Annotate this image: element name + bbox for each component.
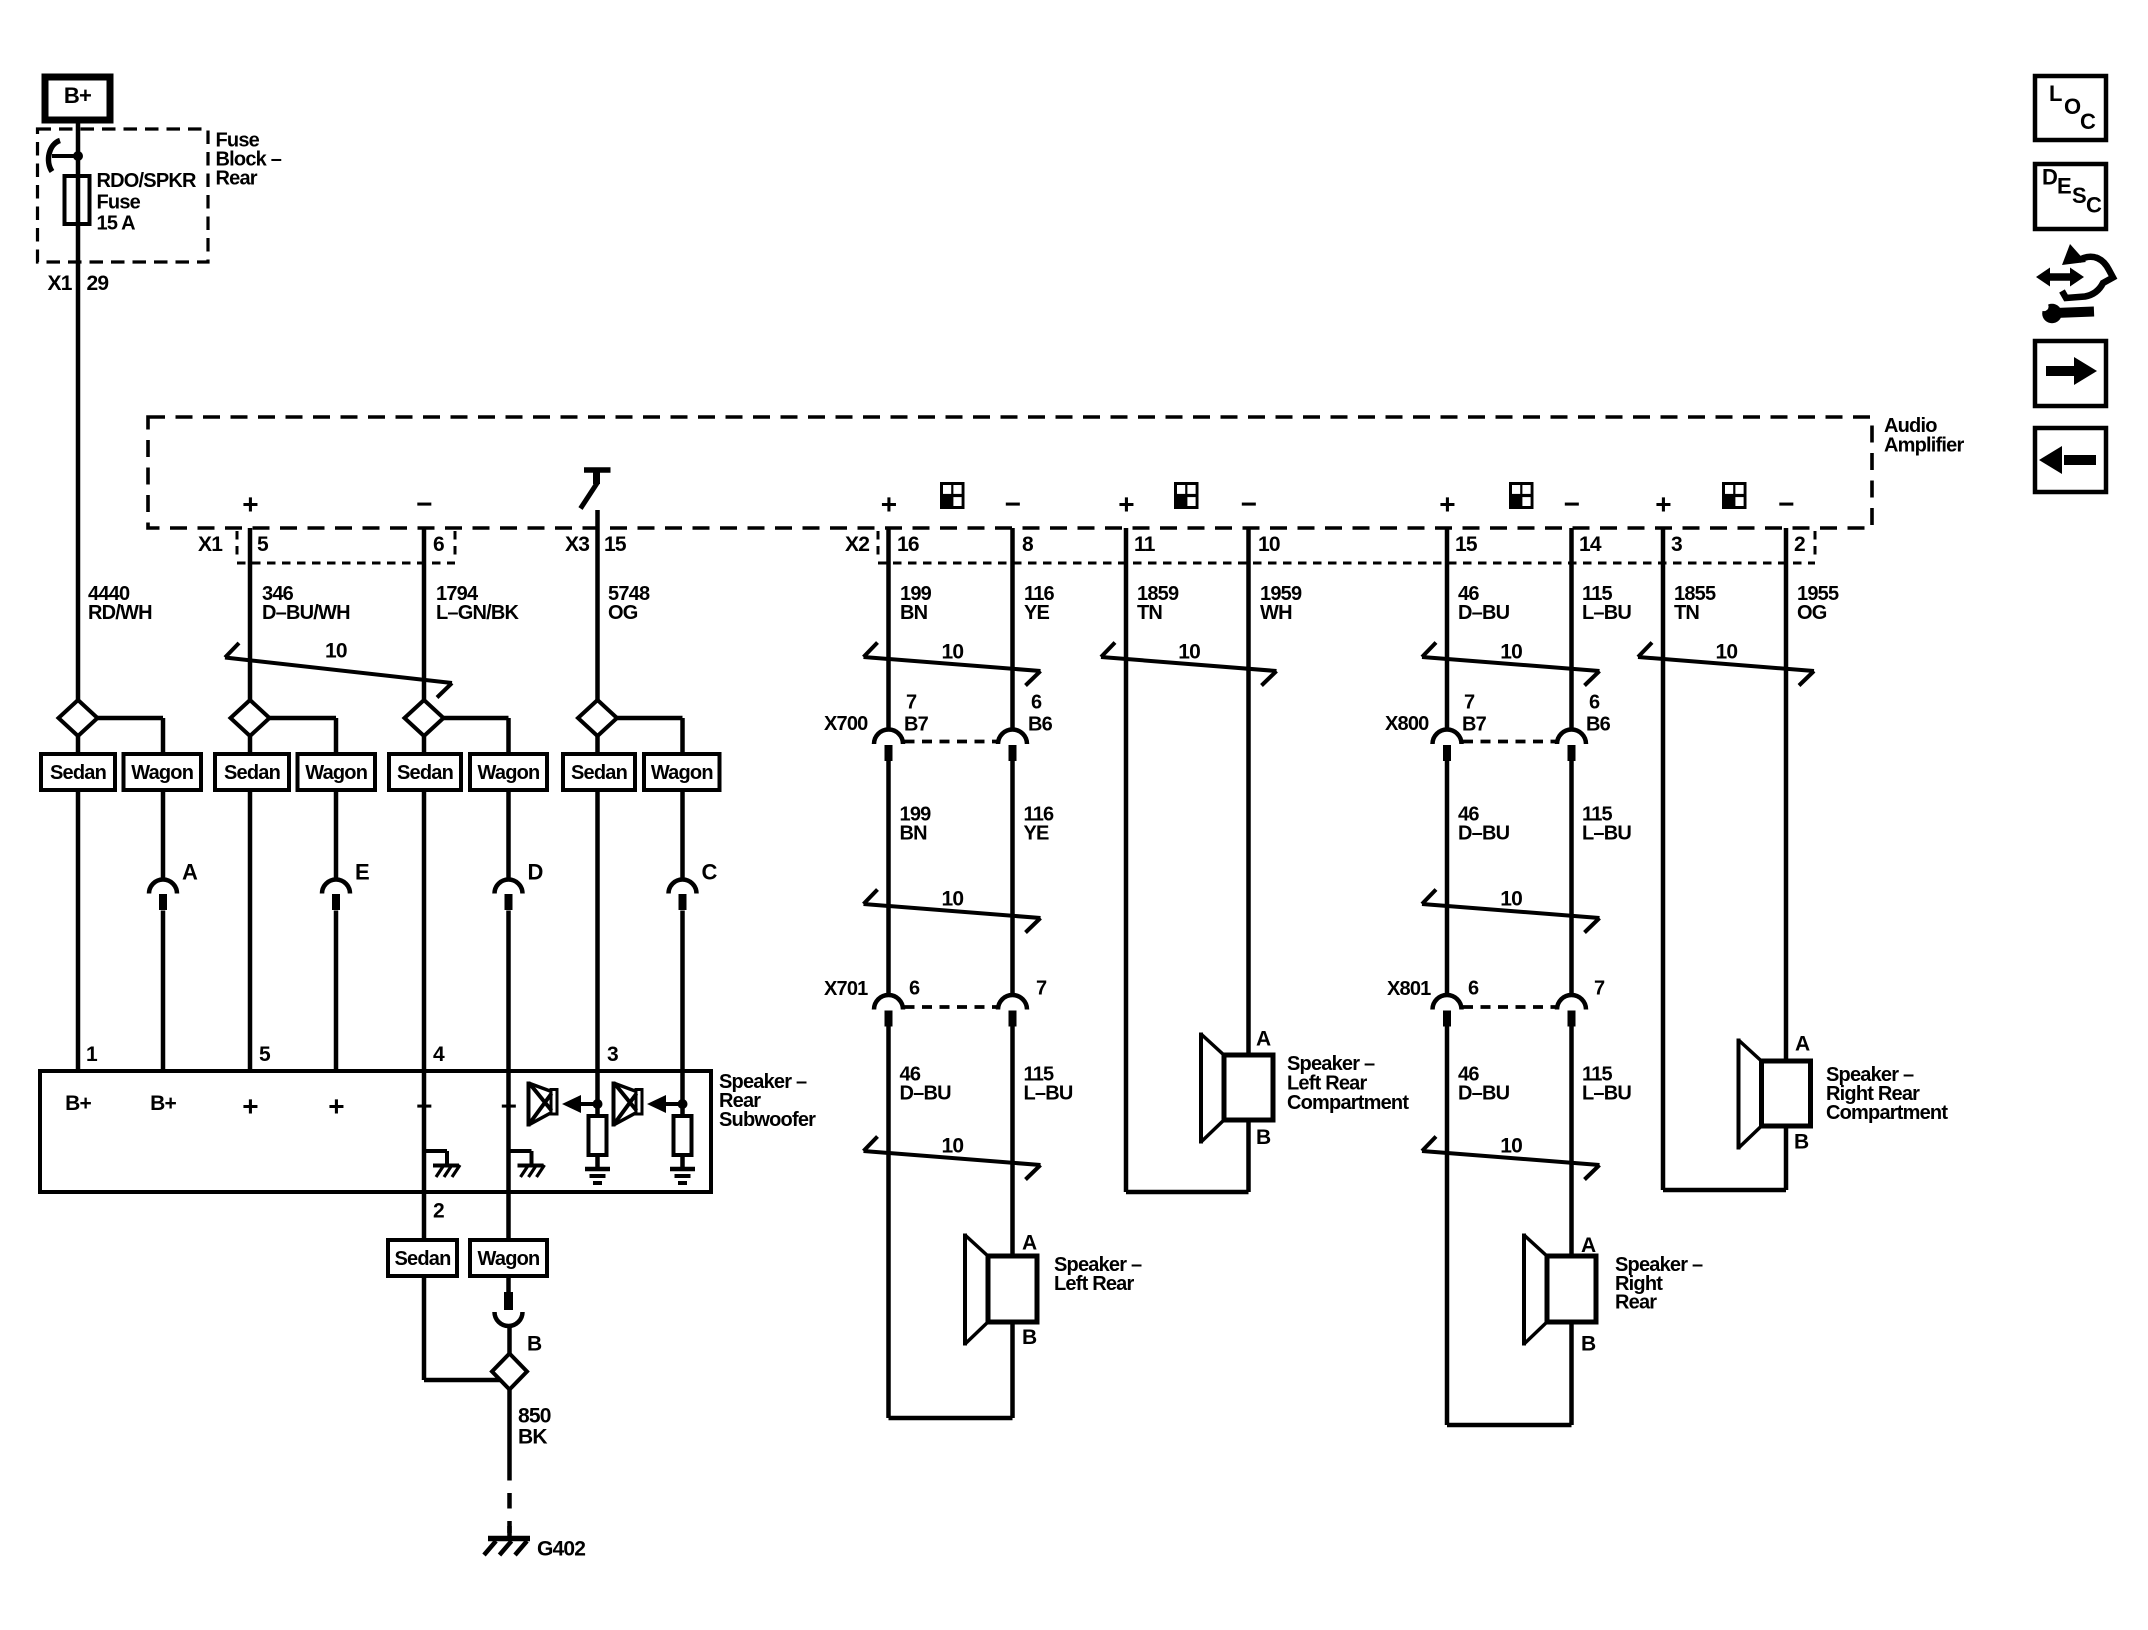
svg-text:Sedan: Sedan <box>50 762 106 784</box>
svg-text:−: − <box>416 489 432 520</box>
svg-text:BN: BN <box>900 602 928 624</box>
svg-text:7: 7 <box>906 691 917 713</box>
svg-text:16: 16 <box>897 533 919 556</box>
svg-text:6: 6 <box>909 977 920 999</box>
svg-text:B: B <box>1022 1326 1037 1349</box>
svg-text:B7: B7 <box>1462 713 1487 735</box>
svg-text:10: 10 <box>1716 640 1738 663</box>
svg-text:Wagon: Wagon <box>305 762 367 784</box>
svg-text:L–BU: L–BU <box>1582 602 1631 624</box>
svg-text:YE: YE <box>1024 822 1050 844</box>
svg-text:+: + <box>1118 489 1134 520</box>
svg-text:29: 29 <box>87 272 109 295</box>
svg-text:Wagon: Wagon <box>131 762 193 784</box>
svg-text:15: 15 <box>1455 533 1478 556</box>
svg-text:8: 8 <box>1022 533 1034 556</box>
svg-text:WH: WH <box>1260 602 1292 624</box>
svg-text:7: 7 <box>1036 977 1047 999</box>
svg-text:10: 10 <box>942 887 964 910</box>
svg-text:2: 2 <box>1794 533 1805 556</box>
svg-text:B6: B6 <box>1028 713 1053 735</box>
svg-text:Wagon: Wagon <box>478 1248 540 1270</box>
svg-text:−: − <box>1005 489 1021 520</box>
svg-text:Sedan: Sedan <box>397 762 453 784</box>
svg-text:X3: X3 <box>565 533 589 556</box>
svg-text:X801: X801 <box>1387 978 1431 1000</box>
svg-text:Sedan: Sedan <box>224 762 280 784</box>
svg-text:X1: X1 <box>48 272 73 295</box>
svg-text:3: 3 <box>607 1043 618 1066</box>
svg-text:14: 14 <box>1579 533 1602 556</box>
svg-text:850: 850 <box>518 1404 551 1427</box>
svg-text:OG: OG <box>1797 602 1827 624</box>
svg-text:TN: TN <box>1674 602 1699 624</box>
svg-text:2: 2 <box>433 1199 444 1222</box>
svg-text:D–BU/WH: D–BU/WH <box>262 602 350 624</box>
svg-text:Left Rear: Left Rear <box>1054 1273 1135 1295</box>
svg-text:+: + <box>328 1091 344 1122</box>
svg-text:TN: TN <box>1137 602 1162 624</box>
svg-text:X800: X800 <box>1385 713 1429 735</box>
svg-text:10: 10 <box>1178 640 1200 663</box>
svg-text:C: C <box>2086 193 2102 218</box>
svg-text:Compartment: Compartment <box>1826 1102 1948 1124</box>
svg-text:−: − <box>1564 489 1580 520</box>
svg-text:B: B <box>1581 1332 1596 1355</box>
svg-text:Wagon: Wagon <box>478 762 540 784</box>
svg-text:10: 10 <box>1258 533 1280 556</box>
svg-text:L–BU: L–BU <box>1024 1082 1073 1104</box>
svg-text:B: B <box>527 1332 542 1355</box>
svg-text:3: 3 <box>1671 533 1682 556</box>
svg-text:+: + <box>242 1091 258 1122</box>
svg-text:BK: BK <box>518 1425 547 1448</box>
svg-text:6: 6 <box>1468 977 1479 999</box>
svg-text:RD/WH: RD/WH <box>88 602 152 624</box>
svg-text:Sedan: Sedan <box>394 1248 450 1270</box>
svg-text:Fuse: Fuse <box>97 191 141 213</box>
svg-text:X700: X700 <box>824 713 868 735</box>
svg-text:D: D <box>528 860 543 885</box>
svg-text:7: 7 <box>1464 691 1475 713</box>
svg-text:BN: BN <box>900 822 928 844</box>
svg-text:−: − <box>1778 489 1794 520</box>
svg-text:6: 6 <box>1031 691 1042 713</box>
svg-text:10: 10 <box>942 640 964 663</box>
svg-text:X701: X701 <box>824 978 868 1000</box>
svg-text:6: 6 <box>433 533 444 556</box>
svg-text:X1: X1 <box>198 533 223 556</box>
svg-text:11: 11 <box>1134 533 1156 556</box>
svg-text:Rear: Rear <box>216 167 258 189</box>
svg-text:Amplifier: Amplifier <box>1884 434 1964 456</box>
svg-text:10: 10 <box>1500 887 1522 910</box>
svg-text:Compartment: Compartment <box>1287 1092 1409 1114</box>
svg-text:A: A <box>1256 1027 1271 1050</box>
svg-text:L–BU: L–BU <box>1582 1082 1631 1104</box>
svg-text:B+: B+ <box>64 83 91 108</box>
svg-text:G402: G402 <box>537 1537 585 1560</box>
svg-text:Rear: Rear <box>1615 1291 1657 1313</box>
svg-text:6: 6 <box>1589 691 1600 713</box>
svg-text:L–BU: L–BU <box>1582 822 1631 844</box>
svg-text:D–BU: D–BU <box>1458 822 1510 844</box>
svg-text:S: S <box>2072 183 2086 208</box>
svg-text:YE: YE <box>1024 602 1050 624</box>
svg-text:1: 1 <box>86 1043 98 1066</box>
svg-text:B6: B6 <box>1586 713 1611 735</box>
svg-text:Subwoofer: Subwoofer <box>719 1109 816 1131</box>
svg-text:X2: X2 <box>845 533 869 556</box>
svg-text:D: D <box>2042 165 2057 190</box>
svg-text:10: 10 <box>1500 640 1522 663</box>
svg-text:E: E <box>2057 174 2071 199</box>
svg-text:10: 10 <box>325 639 347 662</box>
svg-text:5: 5 <box>259 1043 271 1066</box>
svg-text:A: A <box>1795 1032 1810 1055</box>
svg-text:B+: B+ <box>150 1092 176 1115</box>
svg-text:D–BU: D–BU <box>1458 602 1510 624</box>
svg-text:B: B <box>1794 1130 1809 1153</box>
svg-text:+: + <box>881 489 897 520</box>
svg-text:10: 10 <box>942 1134 964 1157</box>
svg-text:Wagon: Wagon <box>651 762 713 784</box>
svg-text:L–GN/BK: L–GN/BK <box>436 602 520 624</box>
svg-text:+: + <box>1439 489 1455 520</box>
svg-text:E: E <box>355 860 369 885</box>
svg-text:B: B <box>1256 1126 1271 1149</box>
svg-text:−: − <box>1241 489 1257 520</box>
svg-text:15 A: 15 A <box>97 212 136 234</box>
svg-text:OG: OG <box>608 602 638 624</box>
svg-text:O: O <box>2064 94 2081 119</box>
svg-text:D–BU: D–BU <box>1458 1082 1510 1104</box>
svg-text:A: A <box>182 860 198 885</box>
svg-text:+: + <box>1655 489 1671 520</box>
svg-text:B7: B7 <box>904 713 929 735</box>
svg-text:D–BU: D–BU <box>900 1082 952 1104</box>
svg-text:A: A <box>1581 1234 1596 1257</box>
svg-text:10: 10 <box>1500 1134 1522 1157</box>
svg-text:+: + <box>242 489 258 520</box>
svg-text:C: C <box>702 860 718 885</box>
svg-text:L: L <box>2049 81 2062 106</box>
svg-text:7: 7 <box>1594 977 1605 999</box>
svg-text:15: 15 <box>604 533 627 556</box>
svg-text:4: 4 <box>433 1043 445 1066</box>
svg-text:C: C <box>2080 109 2096 134</box>
svg-text:RDO/SPKR: RDO/SPKR <box>97 170 198 192</box>
svg-text:Sedan: Sedan <box>571 762 627 784</box>
svg-text:A: A <box>1022 1231 1037 1254</box>
svg-text:B+: B+ <box>65 1092 91 1115</box>
svg-text:5: 5 <box>257 533 269 556</box>
